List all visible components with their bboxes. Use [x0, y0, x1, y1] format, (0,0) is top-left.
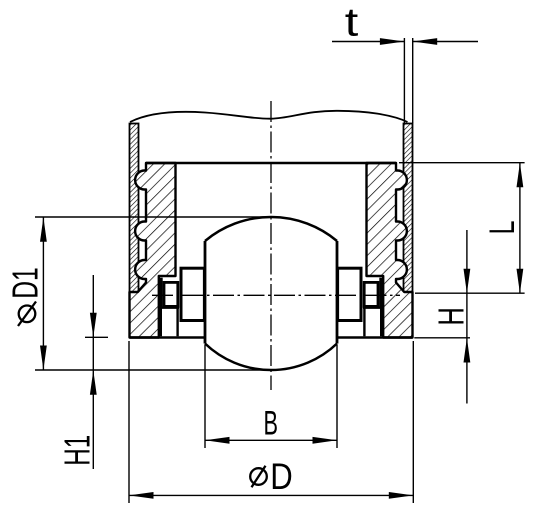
ball bottom arc	[205, 344, 337, 371]
spring washer right (solid black)	[379, 278, 383, 308]
housing wall left (hatched section with press-fit ribs)	[130, 163, 176, 338]
flange bottom right segment	[337, 336, 413, 339]
B extension lines	[204, 345, 206, 448]
housing top extension line (L top)	[399, 162, 525, 164]
H1 dimension line	[92, 275, 94, 469]
D extension lines	[128, 341, 130, 503]
t dimension line	[332, 41, 404, 43]
tube wall left (hatched)	[130, 124, 139, 293]
horizontal centerline	[152, 294, 400, 296]
t extension lines	[403, 38, 405, 123]
ball bottom extension line (D1/H1 bottom)	[35, 369, 272, 371]
label D with diameter symbol	[250, 468, 267, 485]
svg-text:B: B	[263, 405, 278, 443]
svg-text:H1: H1	[57, 435, 98, 466]
label D1 with diameter symbol (rotated)	[19, 306, 36, 323]
pivot pin left	[164, 282, 178, 306]
bearing ring left	[181, 268, 204, 320]
svg-text:t: t	[345, 1, 359, 45]
pin bottom line left	[159, 307, 179, 309]
bearing ring right	[338, 268, 361, 320]
flange bottom extension stub left (H1 top)	[85, 336, 108, 338]
B dimension line	[205, 439, 337, 441]
bore wall right	[336, 241, 339, 344]
L dimension line	[519, 163, 521, 294]
flange bottom left segment	[130, 336, 206, 339]
flange bottom extension line right (H bottom)	[414, 337, 470, 339]
housing top edge	[146, 162, 396, 164]
svg-text:D: D	[270, 456, 293, 497]
spring washer left (solid black)	[159, 278, 163, 308]
tube break line (wavy)	[130, 111, 408, 122]
pocket left (recess in flange)	[161, 307, 178, 336]
pocket right (recess in flange)	[364, 307, 381, 336]
pin bottom line right	[363, 307, 383, 309]
bore wall left	[204, 241, 207, 344]
pivot pin right	[364, 282, 378, 306]
H dimension line	[466, 230, 468, 404]
flange top extension line (L bottom / H top)	[415, 292, 525, 294]
ball top arc	[205, 217, 337, 241]
ball top extension line (D1 top)	[35, 216, 267, 218]
svg-text:H: H	[431, 307, 472, 326]
D dimension line	[129, 494, 413, 496]
D1 dimension line	[42, 217, 44, 370]
svg-text:L: L	[482, 221, 522, 235]
svg-text:D1: D1	[5, 267, 46, 299]
housing wall right (hatched section with press-fit ribs)	[367, 163, 413, 338]
tube wall right (hatched)	[404, 124, 413, 293]
vertical centerline	[270, 101, 272, 390]
